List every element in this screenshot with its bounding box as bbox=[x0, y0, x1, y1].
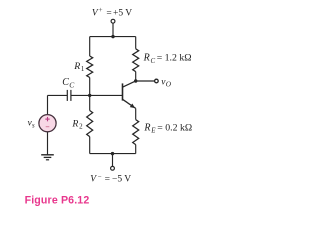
node junction top rail bbox=[111, 35, 114, 38]
transistor Q1 emitter lead bbox=[123, 99, 136, 108]
wire collector node to output terminal bbox=[136, 80, 155, 82]
wire left branch R1 to base node bbox=[89, 78, 91, 96]
svg-text:C: C bbox=[69, 80, 75, 89]
svg-text:V: V bbox=[90, 175, 97, 185]
transistor Q1 base bar bbox=[122, 83, 124, 100]
label V- = -5 V bbox=[90, 174, 131, 185]
svg-text:E: E bbox=[150, 128, 156, 135]
label vs bbox=[28, 117, 35, 129]
source vs plus sign bbox=[45, 117, 49, 121]
resistor RC bbox=[133, 49, 139, 72]
label R2 bbox=[71, 119, 83, 131]
svg-text:R: R bbox=[143, 122, 150, 133]
transistor Q1 emitter arrowhead bbox=[130, 104, 135, 109]
label R1 bbox=[73, 61, 85, 73]
wire source to capacitor bbox=[48, 94, 68, 96]
source vs minus sign bbox=[46, 126, 50, 128]
wire bottom terminal stub bbox=[112, 154, 114, 167]
svg-text:2: 2 bbox=[79, 123, 83, 131]
wire R2 to bottom rail bbox=[89, 137, 91, 154]
svg-text:+5 V: +5 V bbox=[113, 8, 132, 18]
svg-text:Figure P6.12: Figure P6.12 bbox=[25, 194, 90, 206]
label RC = 1.2 kOhm bbox=[143, 53, 192, 65]
svg-text:= 0.2 kΩ: = 0.2 kΩ bbox=[157, 122, 192, 133]
svg-text:−5 V: −5 V bbox=[112, 175, 131, 185]
svg-text:+: + bbox=[99, 7, 103, 14]
node junction base bbox=[88, 94, 91, 97]
svg-text:1: 1 bbox=[81, 65, 85, 73]
svg-text:=: = bbox=[106, 8, 111, 18]
label V+ = +5 V bbox=[92, 7, 132, 18]
wire capacitor to base node bbox=[71, 94, 90, 96]
terminal V+ open circle bbox=[111, 19, 115, 23]
node junction collector bbox=[134, 79, 137, 82]
svg-text:C: C bbox=[62, 77, 69, 88]
resistor R1 bbox=[87, 56, 93, 78]
wire bottom rail bbox=[90, 153, 136, 155]
wire source bottom lead bbox=[47, 132, 49, 155]
terminal V- open circle bbox=[111, 166, 115, 170]
wire RE to bottom rail bbox=[135, 145, 137, 154]
svg-text:s: s bbox=[32, 122, 35, 129]
wire right branch above RC bbox=[135, 37, 137, 49]
wire base bbox=[90, 94, 123, 96]
svg-text:=: = bbox=[105, 175, 110, 185]
transistor Q1 collector lead bbox=[123, 81, 136, 87]
ground bbox=[41, 155, 54, 160]
svg-text:O: O bbox=[166, 80, 172, 89]
svg-text:= 1.2 kΩ: = 1.2 kΩ bbox=[157, 53, 192, 64]
node junction bottom rail bbox=[111, 152, 114, 155]
wire RC to collector node bbox=[135, 72, 137, 81]
wire base node to R2 bbox=[89, 95, 91, 110]
terminal vO open circle bbox=[155, 79, 159, 83]
label CC bbox=[62, 77, 75, 89]
wire left branch above R1 bbox=[89, 37, 91, 56]
source vs circle bbox=[39, 115, 56, 132]
svg-text:R: R bbox=[73, 61, 80, 72]
capacitor CC plates bbox=[67, 90, 71, 101]
svg-text:C: C bbox=[151, 58, 156, 65]
label vO bbox=[161, 77, 172, 88]
wire source top lead bbox=[47, 95, 49, 114]
svg-text:R: R bbox=[143, 53, 150, 64]
wire top rail bbox=[90, 36, 136, 38]
label RE = 0.2 kOhm bbox=[143, 122, 192, 134]
svg-text:−: − bbox=[98, 174, 102, 181]
wire top terminal stub bbox=[112, 23, 114, 36]
resistor R2 bbox=[87, 111, 93, 137]
svg-text:R: R bbox=[71, 119, 78, 130]
resistor RE bbox=[133, 120, 139, 145]
wire emitter to RE bbox=[135, 108, 137, 119]
